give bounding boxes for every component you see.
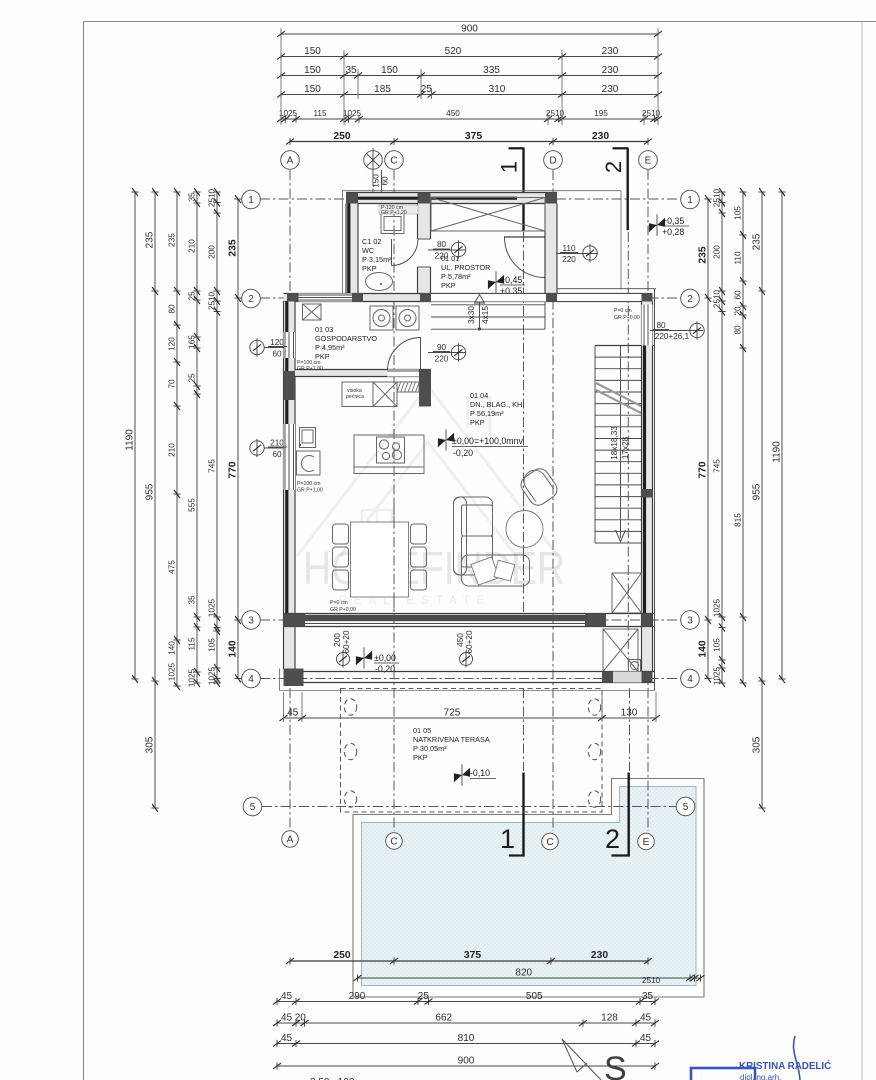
svg-text:120: 120 [168, 337, 177, 351]
svg-text:±0,00: ±0,00 [374, 653, 396, 663]
stair center line + arrow [620, 346, 622, 539]
svg-text:900: 900 [458, 1056, 475, 1067]
svg-text:2510: 2510 [208, 188, 217, 207]
svg-text:450: 450 [446, 109, 460, 118]
svg-text:dipl.ing.arh.: dipl.ing.arh. [740, 1073, 781, 1080]
row4 band [284, 671, 655, 673]
svg-text:S: S [604, 1050, 627, 1080]
svg-text:C: C [390, 155, 397, 166]
svg-text:P=100 cm: P=100 cm [297, 481, 321, 487]
svg-text:4: 4 [687, 674, 693, 685]
svg-text:25: 25 [418, 991, 430, 1002]
svg-text:375: 375 [465, 131, 482, 142]
right dim chain 1190 [781, 192, 783, 679]
north arrow [562, 1039, 601, 1080]
svg-text:235: 235 [168, 233, 177, 247]
section line 1 over coffee table [523, 495, 525, 565]
row bubble 2 left [242, 289, 261, 308]
west wall [284, 302, 296, 670]
svg-text:GR P+1,00: GR P+1,00 [297, 488, 323, 494]
north wall band [346, 193, 557, 204]
svg-text:770: 770 [698, 461, 709, 478]
svg-text:1025: 1025 [713, 598, 722, 617]
svg-text:230: 230 [592, 131, 609, 142]
svg-text:70: 70 [168, 379, 177, 389]
gospodarstvo door swing [420, 338, 422, 371]
pool water [362, 787, 697, 986]
svg-text:2510: 2510 [713, 188, 722, 207]
svg-text:200: 200 [208, 245, 217, 259]
level marker living [438, 429, 454, 451]
grid line D vertical [552, 170, 554, 831]
svg-text:1190: 1190 [772, 441, 783, 463]
covered terrace dashed outline [341, 689, 603, 813]
row2 steps opening [431, 294, 546, 302]
svg-text:35: 35 [642, 991, 654, 1002]
svg-text:120: 120 [270, 338, 284, 347]
east wall black segments [643, 346, 646, 490]
svg-text:200: 200 [713, 245, 722, 259]
row bubble 4 left [242, 669, 261, 688]
svg-text:+0,28: +0,28 [662, 227, 684, 237]
WC toilet oval [366, 273, 393, 291]
svg-text:140: 140 [168, 641, 177, 655]
svg-text:200: 200 [333, 633, 342, 647]
svg-text:GR P+0,00: GR P+0,00 [614, 315, 640, 321]
svg-text:20: 20 [295, 1013, 307, 1024]
row3 columns [284, 614, 306, 627]
svg-text:165: 165 [188, 335, 197, 349]
svg-text:115: 115 [188, 637, 197, 650]
watermark homefinder logo [297, 386, 558, 556]
svg-text:235: 235 [228, 239, 239, 256]
dimension chain top axes 250/375/230 [290, 141, 648, 143]
svg-text:210: 210 [168, 443, 177, 457]
svg-text:±0,00=+100,0mnv: ±0,00=+100,0mnv [452, 436, 523, 446]
svg-text:pećnica: pećnica [346, 394, 364, 400]
extension lines top [280, 28, 282, 125]
svg-text:01 04: 01 04 [470, 391, 488, 400]
svg-text:80: 80 [734, 325, 743, 335]
page frame border [83, 22, 85, 1080]
row bubble 1 left [242, 190, 261, 209]
grid line 2 horizontal [260, 297, 681, 299]
svg-text:235: 235 [145, 231, 156, 248]
left dim chain detail B [196, 192, 198, 683]
dim 900 bottom [277, 1065, 655, 1067]
svg-text:1025: 1025 [208, 666, 217, 685]
svg-text:GOSPODARSTVO: GOSPODARSTVO [315, 334, 377, 343]
dim 45/20/662/128/45 [277, 1022, 655, 1024]
row bubble 3 right [681, 611, 700, 630]
svg-text:230: 230 [602, 84, 619, 95]
svg-text:105: 105 [734, 206, 743, 220]
svg-text:45: 45 [281, 991, 293, 1002]
svg-text:DN., BLAG., KH.: DN., BLAG., KH. [470, 400, 524, 409]
shaft box gospodarstvo [303, 304, 322, 320]
row2 porch opening [557, 294, 642, 302]
grid bubble E top [639, 151, 658, 170]
grid bubble C top [385, 151, 404, 170]
svg-text:900: 900 [461, 24, 478, 35]
dim 250/375/230 bottom [290, 960, 648, 962]
west wall upper (WC) [346, 204, 358, 294]
staircase [595, 345, 655, 347]
kitchen tall units [342, 382, 373, 407]
svg-text:PKP: PKP [470, 418, 485, 427]
svg-text:E: E [643, 837, 650, 848]
svg-text:520: 520 [445, 46, 462, 57]
svg-text:955: 955 [145, 483, 156, 500]
hall closet with X [431, 198, 545, 232]
svg-text:01 03: 01 03 [315, 325, 333, 334]
svg-text:GR P+1,00: GR P+1,00 [297, 366, 323, 372]
svg-text:235: 235 [698, 246, 709, 263]
bottom grid bubbles [282, 831, 299, 848]
svg-text:20: 20 [734, 306, 743, 316]
brace box lower [603, 629, 638, 672]
left dim chain 1190 [134, 192, 136, 679]
right dim chain 235/955/305 [761, 192, 763, 808]
svg-text:475: 475 [168, 560, 177, 574]
svg-text:220+26,1: 220+26,1 [655, 332, 690, 341]
svg-text:PKP: PKP [413, 753, 428, 762]
svg-text:+0,45: +0,45 [500, 275, 522, 285]
svg-text:2: 2 [601, 161, 626, 173]
svg-text:80: 80 [168, 304, 177, 314]
svg-text:80: 80 [437, 240, 447, 249]
svg-text:45: 45 [287, 708, 299, 719]
svg-text:3x30: 3x30 [467, 306, 476, 324]
svg-text:35: 35 [188, 595, 197, 605]
svg-text:35: 35 [345, 65, 357, 76]
entry door swing [504, 236, 545, 238]
dimension chain top 900 [281, 33, 658, 35]
section line 1 dashed middle [523, 232, 525, 620]
svg-text:335: 335 [483, 65, 500, 76]
grid line C over table [393, 500, 395, 612]
dimension chain top 150/185/25/310/230 [281, 94, 658, 96]
kitchen sink unit [300, 428, 316, 448]
svg-text:GR P+1,20: GR P+1,20 [381, 210, 407, 216]
svg-text:45: 45 [640, 1033, 652, 1044]
right dim chain detail A [721, 192, 723, 683]
svg-text:250: 250 [333, 131, 350, 142]
section mark 1 top [509, 147, 525, 149]
svg-text:3: 3 [248, 615, 254, 626]
svg-text:105: 105 [208, 638, 217, 652]
svg-text:1025: 1025 [713, 666, 722, 685]
north wall window bars [358, 197, 418, 200]
svg-text:25: 25 [421, 84, 433, 95]
svg-text:4x15: 4x15 [481, 306, 490, 324]
svg-text:P∙56,19m²: P∙56,19m² [470, 409, 504, 418]
svg-text:150: 150 [381, 65, 398, 76]
svg-text:130: 130 [621, 708, 638, 719]
svg-text:105: 105 [713, 638, 722, 652]
svg-text:UL. PROSTOR: UL. PROSTOR [441, 263, 490, 272]
svg-text:745: 745 [208, 459, 217, 473]
svg-text:60+20: 60+20 [465, 630, 474, 653]
steps arrow [479, 302, 481, 329]
level marker +0,45/+0,35 [488, 271, 504, 293]
svg-text:115: 115 [313, 109, 326, 118]
sofa pillows [471, 557, 499, 585]
brace box upper [612, 573, 642, 613]
kitchen island [354, 435, 424, 474]
slab edge below row4 [280, 690, 655, 692]
west wall window 210/60 [284, 424, 296, 490]
svg-text:1025: 1025 [188, 668, 197, 687]
svg-text:375: 375 [464, 950, 481, 961]
svg-text:4: 4 [248, 674, 254, 685]
left dim chain axes 235/770/140 [237, 199, 239, 679]
svg-text:955: 955 [752, 483, 763, 500]
svg-text:1025: 1025 [208, 598, 217, 617]
column NE (grid D) [545, 193, 557, 205]
stamp signature [793, 1036, 800, 1080]
row bubble 3 left [242, 611, 261, 630]
row bubble 5 right [676, 797, 695, 816]
dishwasher unit [297, 451, 321, 475]
svg-text:235: 235 [752, 233, 763, 250]
svg-text:E: E [645, 155, 652, 166]
svg-text:1190: 1190 [125, 429, 136, 451]
row3 glass wall [284, 613, 655, 615]
right dim chain axes 235/770/140 [707, 199, 709, 679]
svg-text:128: 128 [601, 1013, 618, 1024]
washer boxes [370, 306, 393, 330]
svg-text:P=0 cm: P=0 cm [614, 308, 632, 314]
cooktop [377, 437, 405, 463]
grid line 5 horizontal [262, 806, 676, 808]
svg-text:60: 60 [272, 450, 282, 459]
level marker +0,35/+0,28 [649, 214, 665, 236]
row bubble 5 left [243, 797, 262, 816]
svg-text:2: 2 [687, 294, 693, 305]
dimension chain top 150/520/230 [281, 56, 658, 58]
row2 columns [287, 293, 299, 302]
row bubble 2 right [681, 289, 700, 308]
svg-text:2: 2 [605, 824, 620, 854]
svg-text:1025: 1025 [279, 109, 298, 118]
svg-text:810: 810 [458, 1033, 475, 1044]
grid bubble D top [544, 151, 563, 170]
svg-text:P∙3,15m²: P∙3,15m² [362, 255, 392, 264]
svg-text:90: 90 [437, 343, 447, 352]
svg-text:-0,10: -0,10 [470, 768, 490, 778]
svg-text:1025: 1025 [343, 109, 362, 118]
door marker 80/220 [428, 249, 466, 251]
svg-text:-0,20: -0,20 [453, 448, 473, 458]
dimension chain top 150/35/150/335/230 [281, 75, 658, 77]
svg-text:220: 220 [562, 255, 576, 264]
svg-text:45: 45 [281, 1033, 293, 1044]
svg-text:110: 110 [734, 251, 743, 264]
svg-text:770: 770 [228, 461, 239, 478]
svg-text:45: 45 [281, 1013, 293, 1024]
stair break line [596, 383, 641, 406]
survey point bubble top [364, 151, 383, 170]
svg-text:C: C [546, 837, 553, 848]
svg-text:150: 150 [304, 46, 321, 57]
svg-text:450: 450 [456, 633, 465, 647]
svg-text:250: 250 [333, 950, 350, 961]
svg-text:725: 725 [444, 708, 461, 719]
grid line A vertical [289, 170, 291, 830]
svg-text:-0,20: -0,20 [375, 664, 395, 674]
svg-text:PKP: PKP [441, 281, 456, 290]
section mark 1 bottom [522, 773, 524, 857]
grid line E vertical [647, 170, 649, 831]
eave outline top-left [343, 190, 622, 192]
window marker 120/60 [250, 340, 264, 354]
svg-text:185: 185 [374, 84, 391, 95]
svg-text:195: 195 [594, 109, 608, 118]
svg-text:2510: 2510 [713, 289, 722, 308]
svg-text:210: 210 [188, 239, 197, 253]
WC east wall [418, 204, 431, 240]
row bubble 1 right [681, 190, 700, 209]
porch outline right [620, 191, 622, 289]
svg-text:80: 80 [656, 321, 666, 330]
svg-text:2510: 2510 [208, 291, 217, 310]
svg-text:1: 1 [687, 195, 693, 206]
grid line 3 horizontal [260, 619, 681, 621]
svg-text:555: 555 [188, 498, 197, 512]
svg-text:KRISTINA RADELIĆ: KRISTINA RADELIĆ [739, 1060, 831, 1072]
svg-text:230: 230 [602, 65, 619, 76]
column NW [346, 193, 358, 205]
svg-text:140: 140 [698, 640, 709, 657]
stamp rectangle blue [691, 1068, 755, 1080]
dining chairs right [411, 524, 427, 544]
left dim chain 235/955/305 [154, 192, 156, 808]
svg-text:5: 5 [250, 802, 256, 813]
svg-text:305: 305 [752, 736, 763, 753]
svg-text:1: 1 [248, 195, 254, 206]
section mark 2 top [613, 147, 629, 149]
svg-text:2510: 2510 [642, 976, 661, 985]
svg-text:5: 5 [683, 802, 689, 813]
left dim chain detail A [176, 192, 178, 686]
svg-text:35: 35 [188, 192, 197, 202]
level marker strip [356, 647, 372, 669]
svg-text:505: 505 [526, 991, 543, 1002]
corner pillar kitchen [419, 370, 431, 407]
svg-text:1025: 1025 [168, 662, 177, 681]
row2 window west [299, 294, 353, 302]
svg-text:NATKRIVENA TERASA: NATKRIVENA TERASA [413, 735, 490, 744]
svg-text:220: 220 [435, 252, 449, 261]
svg-text:WC: WC [362, 246, 374, 255]
window marker 210/60 [250, 441, 264, 455]
svg-text:662: 662 [435, 1013, 452, 1024]
svg-text:150: 150 [304, 84, 321, 95]
level marker terrace [454, 764, 470, 786]
svg-text:25: 25 [188, 291, 197, 301]
grid bubble A top [281, 151, 300, 170]
grid line 1 horizontal [260, 198, 681, 200]
svg-text:P∙30,05m²: P∙30,05m² [413, 744, 447, 753]
dim 820 [358, 977, 701, 979]
grid line C vertical [393, 170, 395, 831]
dim 45/725/130 [284, 717, 657, 719]
section line 2 dashed middle [627, 232, 629, 672]
svg-text:HOMEFINDER: HOMEFINDER [303, 542, 565, 594]
terrace columns dashed ovals [344, 699, 356, 715]
svg-text:230: 230 [591, 950, 608, 961]
east wall columns [642, 489, 653, 498]
svg-text:3: 3 [687, 615, 693, 626]
svg-text:230: 230 [602, 46, 619, 57]
armchair [516, 464, 560, 509]
column N-mid [418, 193, 431, 205]
svg-text:110: 110 [562, 244, 575, 253]
svg-text:1: 1 [497, 161, 522, 173]
dim 45/810/45 [277, 1043, 655, 1045]
dining chairs left [333, 524, 349, 544]
boiler [629, 660, 641, 672]
svg-text:60: 60 [734, 290, 743, 300]
left dim chain detail C [216, 192, 218, 683]
svg-text:60: 60 [272, 350, 282, 359]
section mark 2 bottom [628, 773, 630, 857]
pool outline [353, 779, 704, 998]
WC door swing [391, 239, 393, 266]
svg-text:PKP: PKP [362, 264, 377, 273]
row2 wall band [284, 294, 653, 302]
svg-text:P∙4,95m²: P∙4,95m² [315, 343, 345, 352]
door marker 80/220+26,1 [650, 330, 703, 332]
gospodarstvo south wall [295, 370, 431, 377]
coffee table [506, 511, 543, 548]
svg-text:P∙5,78m²: P∙5,78m² [441, 272, 471, 281]
svg-text:P=0 cm: P=0 cm [330, 600, 348, 606]
svg-text:C1 02: C1 02 [362, 237, 381, 246]
east door opening [642, 305, 653, 346]
svg-text:820: 820 [515, 968, 532, 979]
svg-text:GR P+0,00: GR P+0,00 [330, 607, 356, 613]
svg-text:2: 2 [248, 294, 254, 305]
grid line 4 horizontal [260, 678, 681, 680]
door marker 90/220 [428, 352, 466, 354]
svg-text:01 05: 01 05 [413, 726, 431, 735]
svg-text:45: 45 [640, 1013, 652, 1024]
D wall upper [545, 204, 557, 294]
entry steps 3x30 [431, 304, 545, 306]
west wall column mid [284, 371, 296, 400]
svg-text:310: 310 [489, 84, 506, 95]
svg-text:A: A [287, 155, 294, 166]
svg-text:60+20: 60+20 [342, 630, 351, 653]
svg-text:150: 150 [304, 65, 321, 76]
right dim chain detail B [742, 192, 744, 683]
dimension chain top 1025/115/1025/450/2510/195/2510 [281, 118, 658, 120]
svg-text:C: C [390, 836, 397, 847]
svg-text:D: D [549, 155, 556, 166]
section line 1 dashed terrace [523, 688, 525, 771]
svg-text:210: 210 [270, 439, 284, 448]
row bubble 4 right [681, 669, 700, 688]
svg-text:290: 290 [349, 991, 366, 1002]
svg-text:815: 815 [734, 513, 743, 527]
kitchen hatched cabinet [397, 382, 419, 392]
sofa [454, 497, 493, 575]
dining table [351, 522, 409, 597]
svg-text:1: 1 [500, 824, 515, 854]
east wall [654, 289, 656, 691]
